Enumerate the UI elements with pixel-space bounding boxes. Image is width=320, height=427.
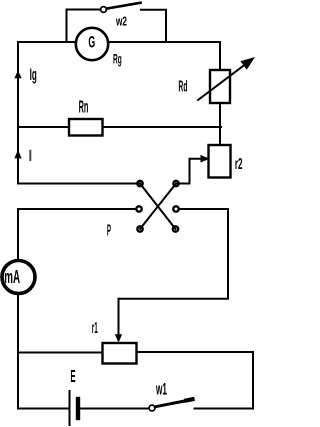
commutator P terminal BL bbox=[137, 226, 142, 231]
wire top loop right side from blade to main wire bbox=[141, 10, 166, 42]
commutator P terminal ML bbox=[136, 206, 141, 211]
resistor r2 body bbox=[209, 145, 231, 178]
commutator P terminal TL bbox=[137, 181, 142, 186]
svg-text:P: P bbox=[107, 223, 111, 240]
r2 wiper arrowhead bbox=[201, 155, 210, 163]
commutator P diagonal TR-BL bbox=[140, 184, 176, 230]
commutator P terminal MR bbox=[173, 206, 178, 211]
commutator P terminal BR bbox=[173, 226, 178, 231]
wire from Rd bottom to r2 top bbox=[219, 103, 221, 146]
wire from mA down to bottom rail bbox=[18, 294, 69, 409]
commutator P diagonal TL-BR bbox=[140, 184, 176, 230]
wire from r1 right to right rail down to bottom bbox=[137, 352, 254, 409]
svg-text:G: G bbox=[88, 34, 95, 52]
switch w2 pivot circle bbox=[101, 7, 107, 13]
wire main top horizontal bbox=[18, 41, 220, 43]
switch w1 blade bbox=[155, 400, 190, 407]
switch w1 blade tip contact bbox=[187, 399, 193, 400]
current arrow Ig on left wire bbox=[14, 70, 21, 78]
svg-text:mA: mA bbox=[4, 266, 20, 287]
wire right vertical from top wire to Rd bbox=[219, 42, 221, 70]
svg-text:w1: w1 bbox=[156, 381, 167, 399]
svg-text:Rn: Rn bbox=[79, 96, 89, 116]
wire top loop left side from main wire up to switch w2 bbox=[67, 10, 101, 43]
battery E long plate bbox=[69, 391, 71, 425]
wire battery right to switch w1 bbox=[80, 408, 149, 410]
svg-text:r2: r2 bbox=[235, 156, 243, 173]
svg-text:w2: w2 bbox=[115, 14, 127, 29]
potentiometer r1 body bbox=[103, 343, 137, 364]
svg-text:Rg: Rg bbox=[113, 51, 122, 66]
switch w2 blade bbox=[106, 3, 140, 9]
rheostat Rd arrowhead bbox=[240, 57, 255, 70]
galvanometer G bbox=[76, 28, 108, 60]
svg-text:Rd: Rd bbox=[178, 79, 187, 96]
wire from left rail to potentiometer r1 bbox=[18, 352, 103, 354]
svg-text:r1: r1 bbox=[92, 320, 98, 337]
wire middle horizontal Rn branch bbox=[18, 126, 221, 128]
commutator P terminal TR bbox=[173, 181, 178, 186]
milliammeter mA bbox=[2, 261, 35, 294]
wire switch w1 fixed contact to right rail bbox=[195, 408, 254, 410]
wire from commutator MR right and down to r1 wiper bbox=[119, 209, 229, 334]
label I (current I bar) bbox=[29, 150, 31, 161]
wire left vertical down to commutator row 1 bbox=[18, 42, 140, 184]
current arrow I on left wire bbox=[14, 150, 21, 159]
r1 wiper arrowhead bbox=[115, 334, 122, 343]
resistor Rn bbox=[69, 119, 103, 136]
wire from commutator terminal TR up to r2 wiper arrow bbox=[176, 159, 201, 184]
battery E short thick plate bbox=[76, 399, 80, 418]
rheostat Rd body bbox=[210, 70, 230, 103]
wire row 2 from mA branch to commutator ML bbox=[18, 209, 136, 260]
svg-text:Ig: Ig bbox=[30, 66, 37, 84]
rheostat Rd diagonal arrow shaft bbox=[198, 63, 247, 100]
switch w1 pivot circle bbox=[149, 405, 155, 411]
svg-text:E: E bbox=[70, 367, 75, 386]
